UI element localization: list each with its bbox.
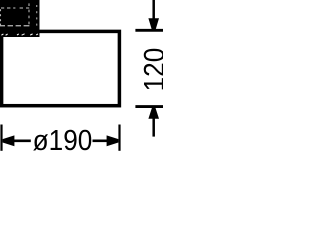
horizontal dimension: left arrow [3, 135, 15, 146]
canopy block (solid section) [0, 0, 40, 37]
hidden detail dashed line (inner vertical) [28, 3, 30, 24]
svg-text:120: 120 [138, 48, 163, 92]
luminaire body (shade) outline [2, 31, 120, 105]
horizontal dimension: right arrow [107, 135, 119, 146]
vertical dimension: lower leader line [152, 118, 155, 137]
svg-text:ø190: ø190 [33, 124, 93, 151]
vertical dimension: upper extension tick [135, 29, 163, 32]
horizontal dimension: right extension tick [118, 125, 120, 151]
hidden detail dashed line (left vertical) [0, 9, 2, 25]
vertical dimension: lower extension tick [135, 105, 163, 108]
hidden detail dashed line (top horizontal) [1, 7, 29, 9]
hidden detail dashed line (lower horizontal) [0, 25, 29, 27]
vertical dimension: upper leader line [152, 0, 155, 20]
vertical dimension: lower arrow (up) [148, 108, 159, 119]
horizontal dimension: left extension tick [0, 125, 2, 151]
hatch speckles [1, 34, 38, 36]
horizontal dimension: left line segment [13, 140, 31, 143]
horizontal dimension: right line segment [93, 140, 108, 143]
vertical dimension: upper arrow (down) [148, 18, 159, 30]
hidden detail dashed line (right vertical) [36, 5, 38, 26]
